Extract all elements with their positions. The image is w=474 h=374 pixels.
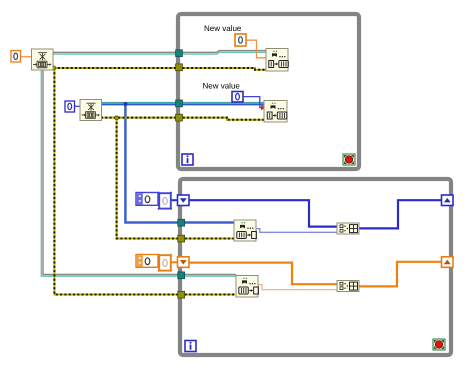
junction dot queue2 refnum <box>124 102 128 106</box>
wire error1 top run (dashed) <box>54 68 267 70</box>
iteration terminal loop1 <box>182 154 193 165</box>
red feedback arrow at enqueue2 input <box>261 105 267 110</box>
wire DBL constant to obtain1 <box>20 56 32 58</box>
blue empty array constant <box>136 192 172 210</box>
wire dequeue2 element to build array 2 <box>258 285 338 290</box>
constant 0 DBL (top-left) <box>11 51 21 63</box>
right shift register loop2 (blue) <box>442 195 454 206</box>
wire queue2 refnum vertical branch <box>125 104 235 223</box>
loop condition (stop) terminal loop1 <box>343 154 355 165</box>
build array node 1 <box>337 223 359 234</box>
tunnel error2 into loop2 (olive) <box>178 235 185 242</box>
wire queue2 refnum top run (blue strand) <box>101 103 265 105</box>
junction ring error1 <box>52 66 56 70</box>
wire queue1 refnum vertical branch (gray strand) <box>43 70 236 275</box>
orange empty array constant <box>136 254 172 272</box>
tunnel error2 into loop1 (olive) <box>176 114 183 121</box>
wire queue1 refnum top run (teal strand) <box>52 52 267 54</box>
svg-text:New value: New value <box>204 24 242 33</box>
wire I32 constant to obtain2 <box>74 105 81 107</box>
svg-text:New value: New value <box>203 82 241 91</box>
enqueue element node 2 <box>264 101 287 123</box>
tunnel error1 into loop1 (olive) <box>176 64 183 71</box>
constant 0 I32 (left) <box>65 101 75 112</box>
while loop 1 border <box>178 14 359 169</box>
obtain queue node 1 <box>32 49 54 70</box>
iteration terminal loop2 <box>185 341 196 352</box>
wire dequeue1 element to build array 1 <box>256 229 338 233</box>
wire queue1 refnum top run (gray strand) <box>52 51 267 53</box>
enqueue element node 1 <box>266 49 288 72</box>
left shift register loop2 (blue) <box>178 195 190 206</box>
wire New value DBL constant to enqueue1 <box>246 40 267 58</box>
wire error2 top run (dashed) <box>101 118 265 120</box>
wire build array 1 to right shift register <box>358 200 442 228</box>
tunnel queue2 refnum into loop1 (teal) <box>176 100 183 107</box>
loop condition (stop) terminal loop2 <box>433 339 445 350</box>
junction ring error2 <box>115 116 119 120</box>
wire build array 2 to right shift register <box>358 262 442 287</box>
wire queue2 refnum top run (teal strand) <box>101 102 265 104</box>
build array node 2 <box>337 281 359 292</box>
right shift register loop2 (orange) <box>442 257 454 268</box>
tunnel queue1 refnum into loop2 (teal) <box>178 272 185 279</box>
wire New value I32 constant to enqueue2 <box>243 97 264 108</box>
dequeue element node 2 <box>236 276 258 298</box>
constant 0 I32 (loop1) <box>232 92 243 103</box>
wire orange shift register to build array 2 <box>188 263 338 285</box>
wire queue1 refnum vertical branch (teal strand) <box>41 70 236 277</box>
while loop 2 border <box>180 179 451 355</box>
dequeue element node 1 <box>234 220 256 241</box>
obtain queue node 2 <box>80 100 102 121</box>
tunnel queue1 refnum into loop1 (teal) <box>176 50 183 57</box>
wire error1 vertical branch to loop2 (dashed) <box>54 68 235 295</box>
tunnel error1 into loop2 (olive) <box>178 291 185 298</box>
wire orange array constant to left shift register <box>170 261 178 263</box>
constant 0 DBL (loop1) <box>235 34 246 46</box>
wire blue shift register to build array 1 <box>188 200 338 226</box>
wire blue array constant to left shift register <box>170 199 178 201</box>
wire error2 vertical branch to loop2 (dashed) <box>117 118 235 239</box>
left shift register loop2 (orange) <box>178 257 190 268</box>
tunnel queue2 refnum into loop2 (teal) <box>178 219 185 226</box>
